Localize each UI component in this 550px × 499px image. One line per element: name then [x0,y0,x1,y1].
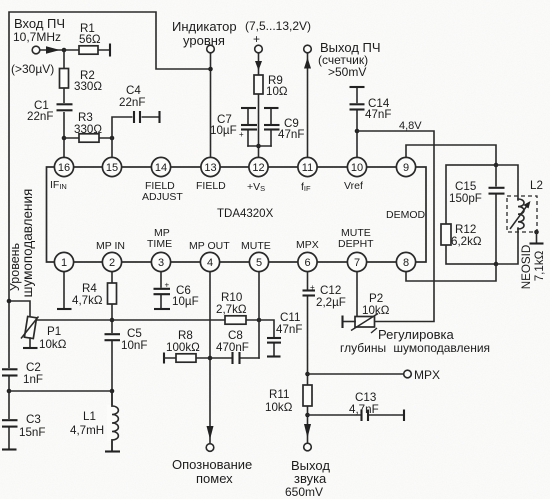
wire: pin3 C6 stem [160,271,162,308]
label: C8 value [216,329,249,354]
svg-text:6,2kΩ: 6,2kΩ [451,235,482,248]
node: C2/C3 junction [7,389,12,394]
label: C3 value [19,413,45,439]
label: L1 value [70,410,104,437]
terminal: supply 7.5-13.2V [255,45,263,53]
ground: L2 core bar [530,232,544,244]
svg-text:11: 11 [302,162,313,174]
svg-text:NEOSID: NEOSID [520,245,533,289]
svg-text:4,7mH: 4,7mH [70,424,104,437]
svg-text:1: 1 [61,257,67,269]
capacitor C3 15nF [2,419,18,428]
ground: pin1 bar [57,308,72,310]
label: R8 value [166,329,200,354]
label: C1 value [27,99,53,123]
pin 4 [200,252,219,271]
capacitor C12 2.2uF [303,283,316,297]
label: R3 value [74,111,102,136]
pin 16 [54,157,73,176]
svg-text:47nF: 47nF [278,128,304,141]
wire: pin1 ground stem [63,271,65,308]
pin 6 [298,252,317,271]
svg-text:+: + [165,281,170,290]
svg-text:шумоподавления: шумоподавления [20,189,35,298]
capacitor C9 47nF [264,108,280,146]
svg-text:3: 3 [158,257,164,269]
node: pin4/R8 junction [208,356,213,361]
pin 8 [396,252,415,271]
ground: P1 bottom bar [23,347,38,349]
svg-text:12: 12 [252,162,264,174]
svg-text:7,1kΩ: 7,1kΩ [533,250,546,281]
node: junction pin13/frame [208,67,213,72]
wire: pin7 to P2 wiper [356,271,358,316]
ground: C14 top bar [350,86,365,88]
label: pin name MP TIME [147,227,172,250]
capacitor C4 22nF [133,111,142,123]
wire: R3 horizontal [64,137,112,139]
svg-text:DEMOD: DEMOD [386,209,426,221]
svg-text:TIME: TIME [147,238,172,250]
label: C2 value [23,361,43,386]
svg-text:Вход ПЧ: Вход ПЧ [14,16,65,31]
svg-text:ADJUST: ADJUST [142,191,183,203]
svg-text:R11: R11 [269,388,289,401]
svg-text:L2: L2 [530,179,543,192]
svg-text:4,7kΩ: 4,7kΩ [72,294,103,307]
label: R12 value [451,223,482,248]
svg-text:47nF: 47nF [276,323,302,336]
wire: L2 branch top [496,165,518,200]
svg-text:10µF: 10µF [210,124,237,137]
capacitor C2 1nF [2,368,18,377]
wire: bus P1 to pin5 [33,319,259,321]
label: C14 value [365,97,391,121]
svg-text:10nF: 10nF [121,339,147,352]
resistor R4 4.7k [108,283,117,304]
svg-text:14: 14 [155,162,167,174]
potentiometer P1 10k [21,316,39,347]
svg-text:22nF: 22nF [27,110,53,123]
wire: left rail from pin13 frame around top-left down to C2/C3 [9,12,211,449]
svg-text:(7,5...13,2V): (7,5...13,2V) [245,19,311,33]
ground: P2 left bar [341,316,343,329]
pin 1 [54,252,73,271]
pin 12 [249,157,268,176]
pin 5 [249,252,268,271]
capacitor C14 47nF [350,103,365,110]
label: R10 value [216,291,247,316]
wire: MPX line [308,373,405,375]
terminal: level indicator [207,45,215,53]
pin 9 [396,157,415,176]
pin 3 [151,252,170,271]
label: Уровень шумоподавления rotated [8,189,35,298]
svg-text:10kΩ: 10kΩ [265,401,293,414]
ground: C6 bottom bar [154,308,170,310]
pin 7 [347,252,366,271]
label: Выход ПЧ (счетчик) >50mV [318,40,381,79]
svg-text:2,2µF: 2,2µF [316,296,346,309]
terminal: MPX [404,370,412,378]
svg-text:2,7kΩ: 2,7kΩ [216,303,247,316]
wire: pin5 MUTE vertical [258,271,260,358]
terminal: audio output [304,443,312,451]
wire: pin2/R4/C5/L1 vertical [111,271,113,451]
label: Индикатор уровня [172,19,237,48]
wire: R8/C8 line [164,357,259,359]
ground: C13 right bar [403,410,405,422]
wire: input to R1 node [40,49,110,51]
capacitor C11 47nF [267,338,281,356]
svg-text:+: + [239,130,244,139]
svg-text:470nF: 470nF [216,341,249,354]
node: +Vs decoupling junction [256,144,261,149]
pin 15 [102,157,121,176]
wire: pin10 Vref with C14 [356,87,358,158]
svg-text:звука: звука [294,471,327,486]
arrow: supply current down [255,61,262,71]
wire: pin13 stem up to level-indicator terminal [210,53,212,158]
pin 14 [151,157,170,176]
resistor R3 330 ohm [79,134,99,142]
label: P1 value [39,325,67,351]
svg-text:8: 8 [403,257,409,269]
svg-text:уровня: уровня [183,33,225,48]
resistor R8 100k [176,354,196,362]
wire: supply down through R9 to pin12 [258,53,260,158]
resistor R12 6.2k [441,224,451,245]
svg-text:100kΩ: 100kΩ [166,341,200,354]
svg-text:15nF: 15nF [19,426,45,439]
svg-text:Опознование: Опознование [172,457,252,472]
svg-text:10: 10 [351,162,363,174]
svg-text:10kΩ: 10kΩ [362,304,390,317]
svg-text:Индикатор: Индикатор [172,19,237,34]
pin 13 [201,157,220,176]
node: tank top junction [494,163,499,168]
resistor R9 10 ohm [254,75,263,94]
label: Опознование помех [172,457,252,486]
pin 2 [102,252,121,271]
resistor R11 10k [303,385,312,406]
node: audio out junction [305,413,310,418]
svg-text:13: 13 [204,162,216,174]
wire: pin4 MP OUT down to output [209,271,211,443]
node: R3/C4/pin15 junction [110,136,115,141]
svg-text:1nF: 1nF [23,373,43,386]
ground: C11 bottom bar [267,355,281,357]
svg-text:L1: L1 [83,410,96,423]
resistor R10 2.7k [225,316,246,324]
label: Выход звука 650mV [285,458,330,499]
svg-text:MUTE: MUTE [241,240,271,252]
node: bus/pin5 junction [257,318,262,323]
svg-text:4: 4 [207,257,213,269]
arrow: audio output down [304,424,311,438]
pin 10 [347,157,366,176]
label: C12 value [316,284,346,309]
svg-text:4,7nF: 4,7nF [349,403,379,416]
label: R2 value [74,69,102,93]
wire: C11 branch [259,320,274,337]
terminal: IF output [304,45,312,53]
inductor L2 adjustable coil [507,196,537,232]
node: L2 core ground junction [534,230,539,235]
svg-text:10µF: 10µF [172,295,199,308]
inductor L1 4.7mH [107,391,118,451]
svg-text:помех: помех [196,471,233,486]
wire: pin11 IF counter output [307,53,309,158]
label: C6 value [172,284,199,308]
wire: pin15 stem and C4 branch [112,117,159,158]
capacitor C6 10uF [154,281,171,295]
pin 11 [298,157,317,176]
svg-text:MP IN: MP IN [96,240,125,252]
capacitor C7 10uF [239,108,257,146]
svg-text:10kΩ: 10kΩ [39,338,67,351]
svg-text:10Ω: 10Ω [266,85,288,98]
label: pin name FIELD ADJUST [142,180,183,203]
wire: R2/C1 vertical branch to pin16 [63,50,65,158]
label: R11 value [265,388,293,414]
capacitor C15 150pF [489,187,505,195]
label: supply voltage [245,19,311,46]
svg-text:TDA4320X: TDA4320X [217,208,274,220]
svg-text:Регулировка: Регулировка [378,327,454,342]
IC U1 TDA4320X body [47,167,427,262]
node: MPX junction [305,372,310,377]
label: R1 value [79,22,101,46]
wire: P1 branch from left rail [9,301,30,318]
svg-text:2: 2 [109,257,115,269]
svg-text:>50mV: >50mV [328,65,366,79]
svg-text:4,8V: 4,8V [399,120,422,132]
svg-text:22nF: 22nF [119,96,145,109]
svg-text:650mV: 650mV [285,485,323,499]
resistor R1 56 ohm [79,46,98,54]
node: Vref 4.8V junction [355,129,360,134]
label: Вход ПЧ 10,7MHz [13,16,65,44]
terminal: interference recognition [206,444,214,452]
wire: C13 line [308,414,405,416]
svg-text:MPX: MPX [414,368,440,382]
svg-text:6: 6 [304,257,310,269]
svg-text:MPX: MPX [296,239,319,251]
arrow: output up [304,58,311,69]
label: P2 value [362,292,390,317]
svg-text:10,7МНz: 10,7МНz [13,30,61,44]
svg-text:47nF: 47nF [365,108,391,121]
ground: C4 right end bar [158,111,160,123]
terminal: IF input [32,46,40,54]
capacitor C1 22nF [57,103,73,112]
wire: tank loop C15/R12 [446,165,496,264]
capacitor C13 4.7nF [362,410,369,422]
svg-text:глубины шумоподавления: глубины шумоподавления [340,341,490,355]
svg-text:7: 7 [354,257,360,269]
svg-text:MP OUT: MP OUT [189,240,230,252]
ground: R8 left bar [163,353,165,364]
svg-text:DEPHT: DEPHT [338,238,374,250]
capacitor C8 470nF [233,352,240,364]
svg-text:+: + [310,283,315,292]
label: C5 value [121,327,147,352]
wire: pin6 MPX vertical [307,271,309,443]
node: C5/L1/C2 junction [110,389,115,394]
node: left rail P1 junction [7,299,12,304]
label: R9 value [266,74,288,98]
arrow: input signal direction [46,46,60,53]
svg-text:9: 9 [403,162,409,174]
wire: rail to L1 node [9,390,112,392]
wire: pin9 to tank top [406,145,496,165]
svg-text:P1: P1 [47,325,61,338]
svg-text:FIELD: FIELD [196,180,226,192]
node: C1/R3/pin16 junction [62,136,67,141]
wire: L2 branch bottom [496,228,518,264]
node: R4/bus junction [110,318,115,323]
wire: C7/C9 bottom loop [248,145,271,147]
label: C9 value [278,117,304,141]
label: pin name MUTE DEPHT [338,227,374,250]
svg-text:150pF: 150pF [449,192,482,205]
potentiometer P2 10k [343,314,378,331]
svg-text:16: 16 [58,162,70,174]
ground: R1 right end bar [109,44,111,57]
svg-text:15: 15 [106,162,118,174]
wire: pin8 to tank bottom [406,264,496,281]
wire: tick to P2 label [371,328,377,333]
svg-text:Vref: Vref [344,180,363,192]
label: C11 value [276,311,302,336]
label: NEOSID 7,1kΩ rotated [520,245,546,289]
svg-text:C3: C3 [26,413,41,426]
ground: C3 bottom bar [2,448,17,450]
svg-text:330Ω: 330Ω [74,123,102,136]
label: C13 value [349,391,379,416]
wire: 4.8V line to P2 [357,131,434,322]
svg-text:(>30µV): (>30µV) [11,62,54,76]
label: C7 value [210,113,237,137]
svg-text:5: 5 [256,257,262,269]
resistor R2 330 ohm [60,69,69,89]
svg-text:330Ω: 330Ω [74,80,102,93]
label: R4 value [72,282,103,307]
node: input junction [62,48,67,53]
label: C15 value [449,180,482,205]
svg-text:56Ω: 56Ω [79,33,101,46]
capacitor C5 10nF [105,333,121,341]
ground: L1 bottom bar [105,450,120,452]
arrow: interference output down [207,426,214,440]
label: Регулировка глубины шумоподавления [340,327,490,355]
svg-text:+: + [253,32,260,46]
label: C4 value [119,84,145,109]
node: tank bottom junction [494,262,499,267]
